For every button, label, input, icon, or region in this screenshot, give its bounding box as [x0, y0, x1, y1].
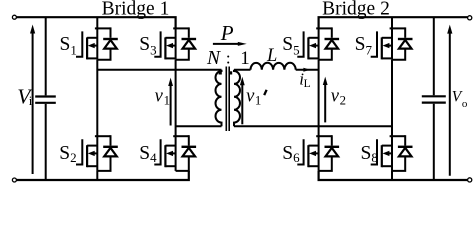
arrow P power flow — [213, 43, 240, 45]
transformer T1 polarity dot primary — [219, 71, 222, 74]
transistor S1 with body diode — [76, 27, 118, 59]
wire S8 source — [391, 171, 393, 180]
capacitor output Co — [433, 17, 435, 95]
wire leg A midpoint — [96, 60, 98, 137]
wire S7 drain — [391, 17, 393, 28]
capacitor input Ci — [45, 17, 47, 95]
svg-text:v: v — [155, 86, 164, 106]
svg-text::: : — [226, 49, 231, 68]
arrow v1 voltage — [170, 82, 172, 126]
svg-text:P: P — [220, 21, 234, 45]
wire S1 drain — [96, 17, 98, 28]
arrow Vo voltage — [449, 29, 451, 176]
terminal top-right — [468, 16, 472, 20]
svg-text:v: v — [331, 86, 340, 106]
svg-text:1: 1 — [164, 93, 170, 107]
wire primary bottom W2 — [176, 125, 222, 127]
svg-text:N: N — [206, 48, 221, 69]
transformer T1 core — [226, 67, 229, 132]
wire leg B midpoint — [175, 60, 177, 137]
transformer T1 polarity dot secondary — [229, 71, 232, 74]
transistor S6 with body diode — [297, 135, 339, 171]
arrow Vi voltage — [32, 29, 34, 174]
transistor S3 with body diode — [154, 27, 196, 59]
wire secondary bottom W4 — [234, 125, 392, 127]
svg-text:L: L — [304, 78, 311, 90]
svg-text:1: 1 — [240, 48, 250, 69]
wire bottom rail bridge 1 — [17, 171, 189, 180]
terminal bottom-left — [12, 178, 16, 182]
transistor S8 with body diode — [371, 135, 413, 171]
svg-text:v: v — [246, 86, 255, 106]
transistor S7 with body diode — [371, 27, 413, 59]
transistor S2 with body diode — [76, 135, 118, 171]
terminal top-left — [12, 15, 16, 19]
wire primary top W1 — [97, 69, 221, 71]
wire leg D midpoint — [391, 60, 393, 137]
wire leg C midpoint — [318, 60, 320, 137]
transformer T1 secondary winding — [234, 70, 240, 127]
svg-text:1: 1 — [255, 93, 261, 107]
svg-text:2: 2 — [340, 93, 346, 107]
arrow v2 voltage — [324, 81, 326, 122]
wire inductor to leg C — [296, 69, 319, 71]
wire bottom rail bridge 2 — [319, 171, 468, 180]
wire top rail bridge 2 — [319, 17, 468, 28]
arrow v1 prime voltage — [241, 83, 243, 125]
transistor S4 with body diode — [154, 135, 196, 171]
transistor S5 with body diode — [297, 27, 339, 59]
transformer T1 primary winding — [216, 70, 222, 127]
wire top rail bridge 1 — [17, 17, 176, 28]
svg-text:o: o — [462, 98, 468, 110]
wire S2 source — [96, 171, 98, 180]
wire secondary to inductor — [234, 69, 251, 71]
terminal bottom-right — [468, 178, 472, 182]
inductor L — [251, 63, 296, 70]
arrow iL current — [303, 68, 310, 72]
